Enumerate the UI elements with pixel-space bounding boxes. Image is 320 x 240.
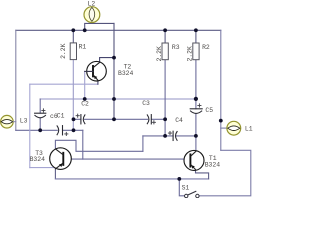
node C4 left	[163, 134, 167, 138]
wire C3 right lead	[151, 118, 165, 120]
transistor T3	[50, 148, 72, 170]
wire tail to T3 emitter	[30, 167, 56, 169]
capacitor C5	[190, 109, 202, 114]
wire T3 collector run	[55, 140, 142, 151]
svg-text:R3: R3	[172, 44, 180, 51]
wire C1 row right segment	[63, 129, 83, 131]
svg-text:L3: L3	[20, 117, 28, 124]
lamp L3	[1, 115, 16, 128]
wire S1 drop	[179, 179, 184, 196]
transistor T1	[184, 150, 204, 170]
svg-text:C5: C5	[205, 107, 213, 114]
plus sign C5	[198, 104, 201, 107]
wire T1 emitter run	[196, 170, 209, 179]
wire bias rail y99	[40, 98, 196, 100]
wire T3 emitter drop	[54, 168, 56, 179]
wire L1 left stub	[221, 127, 227, 129]
node L1 tap	[219, 119, 223, 123]
svg-text:B324: B324	[30, 156, 46, 163]
wire right return loop	[199, 150, 251, 196]
node C5 R2	[194, 97, 198, 101]
node C6 bottom	[38, 128, 42, 132]
wire C2 to C3	[85, 118, 148, 120]
svg-text:R1: R1	[79, 43, 87, 50]
wire C5 top stem	[195, 99, 197, 109]
svg-text:R2: R2	[202, 44, 210, 51]
wire left rail	[15, 30, 17, 130]
node bias rail x114	[112, 97, 116, 101]
lamp L1	[227, 121, 241, 135]
wire riser to base rail	[82, 130, 84, 159]
plus sign C3	[152, 121, 155, 124]
wire top supply rail	[16, 29, 221, 31]
wire C4 row right segment	[177, 135, 196, 137]
svg-text:C4: C4	[175, 117, 183, 124]
wire R3 bottom column	[164, 60, 166, 136]
wire C2 left lead	[74, 118, 81, 120]
resistor R2	[193, 43, 199, 60]
wire L2 right column	[113, 23, 115, 119]
svg-text:C2: C2	[81, 100, 89, 107]
node T2 base bias	[83, 97, 87, 101]
capacitor C3	[147, 115, 151, 124]
wire C5 bottom stem and T1 collector column	[195, 114, 197, 151]
svg-text:B324: B324	[205, 162, 221, 169]
plus sign C6	[42, 109, 45, 112]
capacitor C1	[57, 126, 62, 135]
wire right rail x221	[220, 30, 222, 150]
svg-text:2.2K: 2.2K	[60, 43, 67, 59]
svg-text:C1: C1	[57, 112, 65, 119]
wire R2 top stem	[195, 30, 197, 43]
capacitor C6	[35, 113, 46, 118]
svg-text:S1: S1	[182, 184, 190, 191]
wire base rail T3 to T1	[63, 158, 190, 160]
wire R1 bottom column	[72, 60, 74, 131]
wire R3 top stem	[164, 30, 166, 43]
node top rail L2	[83, 28, 87, 32]
node top rail R1	[71, 28, 75, 32]
node C1 right	[72, 128, 76, 132]
wire T2 emitter drop	[97, 80, 99, 84]
svg-text:B324: B324	[118, 70, 134, 77]
node S1 tap	[177, 177, 181, 181]
plus sign C4	[168, 132, 171, 135]
wire L2 loop	[85, 23, 114, 30]
lamp L2	[84, 7, 100, 23]
plus sign C1	[65, 132, 68, 135]
node top rail R3	[163, 28, 167, 32]
transistor T2	[85, 61, 107, 81]
wire C6 top stem	[39, 99, 41, 113]
resistor R3	[162, 43, 168, 60]
node C4 right	[194, 134, 198, 138]
wire T2 base vertical	[84, 71, 86, 99]
svg-text:2.2K: 2.2K	[187, 46, 194, 62]
node C3 right	[163, 117, 167, 121]
node T2 collector	[112, 56, 116, 60]
plus sign C2	[76, 114, 79, 117]
svg-text:2.2K: 2.2K	[156, 46, 163, 62]
switch S1	[185, 191, 200, 197]
wire y84 emitter feed	[30, 83, 98, 85]
node C2 C3 center	[112, 117, 116, 121]
capacitor C4	[173, 131, 177, 140]
wire riser x143	[142, 136, 144, 151]
capacitor C2	[81, 115, 85, 124]
wire R2 bottom stem	[195, 60, 197, 99]
wire bottom rail	[55, 178, 208, 180]
wire x30 emitter rail	[29, 84, 31, 167]
node top rail R2	[194, 28, 198, 32]
svg-text:L2: L2	[88, 0, 96, 7]
wire C1 row left segment	[16, 129, 58, 131]
node C2 left	[72, 117, 76, 121]
svg-text:L1: L1	[245, 126, 253, 133]
wire T2 collector lead	[100, 58, 114, 63]
wire R1 top stem	[72, 30, 74, 43]
svg-text:C3: C3	[142, 100, 150, 107]
resistor R1	[70, 43, 76, 60]
wire C4 row left segment	[143, 135, 173, 137]
wire C6 bottom stem	[39, 118, 41, 130]
